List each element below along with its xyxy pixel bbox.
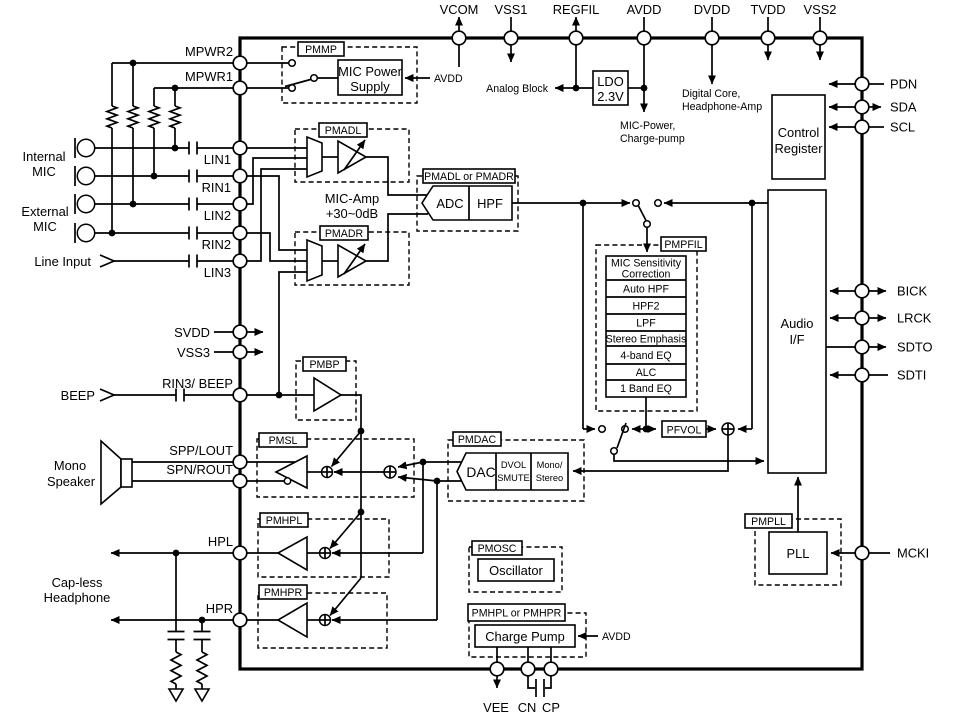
svg-text:REGFIL: REGFIL bbox=[553, 2, 600, 17]
pin DVDD circle bbox=[705, 31, 719, 45]
wire REGFIL up arrow bbox=[575, 17, 577, 31]
svg-text:AVDD: AVDD bbox=[627, 2, 662, 17]
dsp PMPFIL dashed box bbox=[596, 245, 697, 411]
wire MPWR2 external line bbox=[112, 62, 233, 64]
node playback line junction bbox=[749, 200, 756, 207]
switch contact (SDTI side) DSP input bbox=[655, 200, 662, 207]
svg-text:Mono/: Mono/ bbox=[537, 460, 563, 470]
pin RIN3/ BEEP circle bbox=[233, 388, 247, 402]
wire DAC-R diag arrow into speaker mixer2 bbox=[398, 477, 437, 481]
wire PFVOL to playback mixer bbox=[706, 428, 716, 430]
svg-text:+30~0dB: +30~0dB bbox=[326, 206, 378, 221]
wire SDTI inward arrow bbox=[830, 374, 855, 376]
svg-text:PMADR: PMADR bbox=[325, 228, 364, 240]
wire ADC direct line down bbox=[582, 203, 584, 429]
wire VCOM internal stub bbox=[458, 45, 460, 67]
svg-text:PMADL or PMADR: PMADL or PMADR bbox=[424, 171, 514, 183]
wire DVDD up stub bbox=[711, 17, 713, 31]
regulator LDO 2.3V box bbox=[593, 71, 628, 105]
pin MPWR2 circle bbox=[233, 56, 247, 70]
wire BICK outward arrow bbox=[869, 290, 886, 292]
svg-text:SDTI: SDTI bbox=[897, 368, 926, 383]
resistor R2 (bias MPWR2 to LIN2) bbox=[132, 63, 134, 106]
wire VSS2 down arrow bbox=[819, 45, 821, 60]
wire SPN/ROUT to speaker amp bubble bbox=[247, 480, 284, 482]
switch pole DSP input bbox=[644, 221, 651, 228]
wire TVDD down arrow bbox=[767, 45, 769, 60]
svg-text:PMOSC: PMOSC bbox=[478, 543, 517, 555]
svg-text:Control: Control bbox=[778, 125, 820, 140]
label box PMADL bbox=[319, 123, 367, 137]
wire HPR external arrow bbox=[111, 619, 233, 621]
adc PMADL-or-PMADR dashed box bbox=[417, 176, 518, 231]
block PFVOL bbox=[662, 421, 706, 437]
wire AVDD down to LDO node bbox=[643, 45, 645, 88]
wire LDO output to AVDD node bbox=[628, 87, 644, 89]
wire HPL mixer to amp bbox=[307, 552, 320, 554]
svg-text:HPF: HPF bbox=[477, 196, 503, 211]
pin TVDD circle bbox=[761, 31, 775, 45]
wire MPWR1 external line bbox=[154, 87, 233, 89]
svg-text:Internal: Internal bbox=[23, 149, 66, 164]
divider DAC/DVOL bbox=[495, 453, 497, 490]
chargepump PMHPL-or-PMHPR dashed box bbox=[469, 613, 586, 657]
filter stack divider 3 bbox=[606, 313, 686, 315]
svg-text:External: External bbox=[21, 204, 68, 219]
svg-text:LPF: LPF bbox=[636, 318, 656, 330]
label box PMHPL or PMHPR bbox=[468, 604, 565, 621]
wire DAC-R arrow into HPR mixer bbox=[332, 619, 437, 621]
input mux trapezoid (left channel) bbox=[307, 137, 322, 177]
wire cap to pin LIN1 bbox=[197, 147, 233, 149]
svg-text:Supply: Supply bbox=[350, 79, 390, 94]
divider DVOL/MonoStereo bbox=[530, 453, 532, 490]
svg-text:DVOL: DVOL bbox=[501, 460, 526, 470]
wire cap to pin RIN2 bbox=[197, 232, 233, 234]
pin CP circle bbox=[544, 662, 558, 676]
pin HPR circle bbox=[233, 613, 247, 627]
svg-text:RIN1: RIN1 bbox=[202, 180, 231, 195]
svg-text:PMHPL or PMHPR: PMHPL or PMHPR bbox=[472, 608, 562, 620]
osc PMOSC dashed box bbox=[469, 547, 562, 592]
wire VCOM up arrow bbox=[458, 17, 460, 31]
filter stack divider 5 bbox=[606, 345, 686, 347]
pin MCKI circle bbox=[855, 546, 869, 560]
gain arrow through amp-L bbox=[344, 140, 365, 170]
svg-text:Oscillator: Oscillator bbox=[489, 563, 543, 578]
filter stack divider 6 bbox=[606, 363, 686, 365]
pin LIN1 circle bbox=[233, 141, 247, 155]
wire TVDD up stub bbox=[767, 17, 769, 31]
wire mic to coupling cap RIN2 bbox=[95, 232, 189, 234]
wire SCL inward arrow bbox=[829, 126, 855, 128]
wire RIN1 to mux-R input1 bbox=[247, 176, 307, 250]
svg-text:PMHPL: PMHPL bbox=[266, 515, 303, 527]
label box PMSL bbox=[259, 433, 307, 447]
wire LIN3 to mux-L input3 bbox=[247, 169, 307, 261]
node bias junction on LIN1 bbox=[172, 145, 179, 152]
wire HPR mixer to amp bbox=[307, 619, 320, 621]
wire MCKI into PLL arrow bbox=[831, 552, 855, 554]
svg-text:ADC: ADC bbox=[436, 196, 463, 211]
svg-text:MIC-Amp: MIC-Amp bbox=[325, 191, 379, 206]
wire BICK inward arrow bbox=[830, 290, 855, 292]
pin RIN1 circle bbox=[233, 169, 247, 183]
divider ADC/HPF bbox=[468, 186, 470, 220]
pin BICK circle bbox=[855, 284, 869, 298]
pin VSS2 circle bbox=[813, 31, 827, 45]
svg-text:VSS3: VSS3 bbox=[177, 345, 210, 360]
svg-text:2.3V: 2.3V bbox=[597, 89, 624, 104]
pin LIN2 circle bbox=[233, 197, 247, 211]
pin AVDD circle bbox=[637, 31, 651, 45]
node MPWR1-R4 junction bbox=[172, 85, 179, 92]
svg-text:PMPFIL: PMPFIL bbox=[664, 239, 702, 251]
microphone symbol for RIN1 bbox=[74, 166, 76, 186]
svg-text:LDO: LDO bbox=[597, 74, 624, 89]
wire LIN1 to mux-L input1 bbox=[247, 147, 307, 149]
switch pole record select bbox=[611, 448, 618, 455]
wire beep to cap bbox=[114, 394, 176, 396]
speaker PMSL dashed box bbox=[257, 439, 414, 497]
filter stack divider 4 bbox=[606, 330, 686, 332]
node DAC-L junction bbox=[420, 459, 427, 466]
mixer HPR summing circle bbox=[320, 615, 331, 626]
label box PMADL or PMADR bbox=[423, 169, 515, 183]
node beep to speaker mixer junction bbox=[358, 428, 365, 435]
microphone symbol for LIN1 bbox=[74, 138, 76, 158]
node bias junction on LIN2 bbox=[130, 201, 137, 208]
svg-text:LIN3: LIN3 bbox=[204, 265, 231, 280]
resistor R4 (bias MPWR1 to LIN1) bbox=[174, 88, 176, 106]
ground arrow at x=202 bbox=[195, 689, 209, 701]
pll PMPLL dashed box bbox=[755, 519, 841, 585]
wire PDN inward arrow bbox=[829, 83, 855, 85]
pin SVDD circle bbox=[233, 325, 247, 339]
pin HPL circle bbox=[233, 546, 247, 560]
wire cap to pin LIN3 bbox=[197, 260, 233, 262]
wire line input to cap bbox=[114, 260, 189, 262]
wire RIN2 to mux-R input2 bbox=[247, 233, 307, 261]
wire MPWR2 internal to switch contact bbox=[247, 62, 289, 64]
svg-text:Headphone: Headphone bbox=[44, 590, 111, 605]
wire SDTI playback line to switch bbox=[664, 202, 768, 204]
wire VSS2 up stub bbox=[819, 17, 821, 31]
wire mux-R to amp-R bbox=[322, 260, 338, 262]
filter block stack outline bbox=[606, 256, 686, 397]
wire AVDD into Charge Pump bbox=[578, 635, 598, 637]
svg-text:VCOM: VCOM bbox=[440, 2, 479, 17]
wire VSS1 up stub bbox=[510, 17, 512, 31]
filter stack divider 2 bbox=[606, 296, 686, 298]
wire DAC-R down to HPR mixer bbox=[436, 481, 438, 620]
capacitor C-BEEP bbox=[175, 389, 177, 402]
wire DAC-L diag arrow into speaker mixer2 bbox=[398, 462, 423, 467]
svg-text:AVDD: AVDD bbox=[434, 73, 463, 85]
label box PMOSC bbox=[472, 541, 522, 555]
node bias junction on RIN2 bbox=[109, 230, 116, 237]
wire filter stack output bbox=[645, 397, 647, 429]
wire amp-L output to ADC bbox=[366, 157, 428, 195]
label box PMADR bbox=[320, 226, 368, 240]
wire Analog Block arrow from REGFIL node bbox=[555, 87, 593, 89]
pin PDN circle bbox=[855, 77, 869, 91]
switch contact record (filter side) bbox=[622, 426, 629, 433]
svg-text:Charge-pump: Charge-pump bbox=[620, 133, 685, 145]
capacitor C-LIN1 bbox=[188, 142, 190, 155]
mixer speaker mixer1 circle bbox=[322, 467, 333, 478]
block PLL bbox=[769, 532, 827, 574]
resistor in HP filter at x=176 bbox=[175, 640, 177, 653]
svg-text:ALC: ALC bbox=[636, 367, 657, 379]
switch lever record select bbox=[617, 423, 626, 448]
pin VSS1 circle bbox=[504, 31, 518, 45]
label box PMPFIL bbox=[661, 237, 706, 251]
wire AVDD up stub bbox=[643, 17, 645, 31]
svg-text:MIC: MIC bbox=[32, 164, 56, 179]
wire CN down to cap bbox=[528, 676, 535, 688]
amplifier HPR triangle bbox=[278, 603, 307, 637]
wire VSS1 down arrow bbox=[510, 45, 512, 62]
mixer HPL summing circle bbox=[320, 548, 331, 559]
svg-text:SPP/LOUT: SPP/LOUT bbox=[169, 443, 233, 458]
svg-text:Line Input: Line Input bbox=[34, 254, 91, 269]
node filter output junction bbox=[643, 426, 650, 433]
wire DVDD down arrow bbox=[711, 45, 713, 84]
capacitor C-RIN1 bbox=[188, 170, 190, 183]
resistor R3 (bias MPWR1 to RIN1) bbox=[153, 88, 155, 106]
mixer speaker mixer2 circle bbox=[384, 466, 396, 478]
wire HPL external arrow bbox=[111, 552, 233, 554]
switch lever DSP input bbox=[639, 206, 647, 221]
svg-text:CP: CP bbox=[542, 700, 560, 715]
pin SPN/ROUT circle bbox=[233, 474, 247, 488]
wire VEE down arrow bbox=[496, 676, 498, 688]
svg-text:MPWR1: MPWR1 bbox=[185, 69, 233, 84]
svg-text:MIC-Power,: MIC-Power, bbox=[620, 120, 675, 132]
switch contact (ADC side) DSP input bbox=[633, 200, 640, 207]
svg-text:SPN/ROUT: SPN/ROUT bbox=[166, 462, 233, 477]
svg-text:PMPLL: PMPLL bbox=[751, 516, 786, 528]
block Audio I/F bbox=[768, 190, 826, 473]
svg-text:PMADL: PMADL bbox=[325, 125, 362, 137]
block MIC Power Supply bbox=[338, 60, 402, 95]
mic-amp PMADL dashed box bbox=[295, 129, 409, 182]
capacitor in HP filter at x=202 bbox=[201, 620, 203, 632]
wire ADC output to record switch bbox=[512, 202, 630, 204]
node ADC output junction bbox=[580, 200, 587, 207]
label box PMMP bbox=[298, 42, 344, 56]
wire MCKI to label bbox=[869, 552, 890, 554]
capacitor C-LIN3 bbox=[188, 255, 190, 268]
microphone symbol for RIN2 bbox=[74, 223, 76, 243]
wire mic to coupling cap LIN1 bbox=[95, 147, 189, 149]
switch contact MPWR1 bbox=[289, 85, 296, 92]
pin RIN2 circle bbox=[233, 226, 247, 240]
wire PDN to label bbox=[869, 83, 884, 85]
block Oscillator bbox=[478, 559, 554, 581]
svg-text:PMMP: PMMP bbox=[305, 44, 337, 56]
block ADC-HPF pentagon bbox=[422, 186, 512, 220]
svg-text:Charge Pump: Charge Pump bbox=[485, 629, 565, 644]
svg-text:BEEP: BEEP bbox=[61, 388, 95, 403]
pin REGFIL circle bbox=[569, 31, 583, 45]
wire speaker to SPP/LOUT bbox=[132, 461, 233, 463]
wire mux-L to amp-L bbox=[322, 156, 338, 158]
amplifier mic-amp L triangle bbox=[338, 141, 366, 173]
svg-text:Headphone-Amp: Headphone-Amp bbox=[682, 101, 762, 113]
svg-text:Digital Core,: Digital Core, bbox=[682, 88, 740, 100]
wire LIN2 to mux-L input2 bbox=[247, 158, 307, 204]
wire speaker to SPN/ROUT bbox=[132, 480, 233, 482]
input mux trapezoid (right channel) bbox=[307, 240, 322, 281]
wire SDTI to label bbox=[869, 374, 888, 376]
line input chevron symbol bbox=[100, 255, 114, 267]
svg-text:VEE: VEE bbox=[483, 700, 509, 715]
node REGFIL-LDO junction bbox=[573, 85, 580, 92]
svg-text:LIN1: LIN1 bbox=[204, 152, 231, 167]
switch contact MPWR2 bbox=[289, 60, 296, 67]
wire SDA inward arrow bbox=[829, 106, 855, 108]
svg-text:HPF2: HPF2 bbox=[632, 301, 659, 313]
block Charge Pump bbox=[475, 625, 575, 647]
svg-text:I/F: I/F bbox=[789, 332, 804, 347]
wire HPL pin to HPL amp bbox=[247, 552, 278, 554]
label box PMDAC bbox=[453, 432, 501, 446]
node HPR filter junction bbox=[199, 617, 206, 624]
pin SDA circle bbox=[855, 100, 869, 114]
wire SDA outward arrow bbox=[869, 106, 881, 108]
node DAC-R junction bbox=[434, 478, 441, 485]
wire beep to mux-R input3 bbox=[279, 272, 307, 395]
svg-text:Mono: Mono bbox=[54, 458, 86, 473]
wire SCL to label bbox=[869, 126, 884, 128]
pin CN circle bbox=[521, 662, 535, 676]
svg-text:Register: Register bbox=[775, 141, 824, 156]
wire beep diag arrow into HPR mixer bbox=[330, 578, 361, 616]
wire amp-R output to ADC bbox=[366, 214, 428, 261]
wire SDTI line down to mixer bbox=[751, 203, 753, 429]
pin LIN3 circle bbox=[233, 254, 247, 268]
switch lever bbox=[285, 80, 311, 87]
svg-text:HPL: HPL bbox=[208, 534, 233, 549]
wire record path to Audio I/F bbox=[614, 454, 764, 461]
capacitor in HP filter at x=176 bbox=[175, 553, 177, 632]
dac PMDAC dashed box bbox=[448, 440, 584, 501]
svg-text:RIN2: RIN2 bbox=[202, 237, 231, 252]
pin VSS3 circle bbox=[233, 345, 247, 359]
svg-text:PDN: PDN bbox=[890, 77, 917, 92]
svg-text:PMSL: PMSL bbox=[269, 435, 298, 447]
wire beep diag arrow into HPL mixer bbox=[330, 512, 361, 549]
svg-text:SVDD: SVDD bbox=[174, 325, 210, 340]
svg-text:PFVOL: PFVOL bbox=[667, 425, 702, 437]
wire SDTI arrow into mixer bbox=[738, 428, 752, 430]
wire mic to coupling cap LIN2 bbox=[95, 203, 189, 205]
wire beep diag arrow into speaker mixer1 bbox=[332, 431, 362, 467]
wire speaker mixer1 to amp bbox=[307, 471, 322, 473]
svg-text:MCKI: MCKI bbox=[897, 546, 929, 561]
wire SPP/LOUT to speaker amp bbox=[247, 461, 295, 463]
svg-text:Speaker: Speaker bbox=[47, 474, 96, 489]
pin SPP/LOUT circle bbox=[233, 455, 247, 469]
wire DSP input arrow bbox=[646, 227, 648, 252]
wire charge pump to CN pin bbox=[527, 647, 529, 662]
wire RIN3/BEEP to beep amp bbox=[247, 394, 314, 396]
microphone symbol for LIN2 bbox=[74, 194, 76, 214]
svg-text:PMBP: PMBP bbox=[309, 359, 339, 371]
pin SCL circle bbox=[855, 120, 869, 134]
switch pole bbox=[311, 75, 318, 82]
hp PMHPR dashed box bbox=[258, 593, 387, 648]
speaker symbol (mono speaker) bbox=[101, 441, 121, 504]
block Control Register bbox=[772, 95, 825, 179]
svg-text:AVDD: AVDD bbox=[602, 631, 631, 643]
svg-text:1 Band EQ: 1 Band EQ bbox=[620, 383, 672, 395]
node beep line junction bbox=[276, 392, 283, 399]
svg-text:Cap-less: Cap-less bbox=[52, 575, 103, 590]
node MPWR2-R2 junction bbox=[130, 60, 137, 67]
svg-text:PLL: PLL bbox=[787, 546, 810, 561]
svg-text:DVDD: DVDD bbox=[694, 2, 731, 17]
svg-text:SCL: SCL bbox=[890, 120, 915, 135]
svg-text:VSS1: VSS1 bbox=[495, 2, 528, 17]
svg-text:SDTO: SDTO bbox=[897, 340, 933, 355]
label box PMPLL bbox=[745, 514, 792, 528]
amplifier beep triangle bbox=[314, 378, 341, 411]
label box PMHPL bbox=[260, 513, 308, 527]
wire HPR pin to HPR amp bbox=[247, 619, 278, 621]
switch contact record (ADC direct) bbox=[599, 426, 606, 433]
wire CP down to cap bbox=[545, 676, 551, 688]
wire cap to pin RIN1 bbox=[197, 175, 233, 177]
wire charge pump to CP pin bbox=[550, 647, 552, 662]
node AVDD-LDO junction bbox=[641, 85, 648, 92]
capacitor CN-CP flying cap bbox=[535, 679, 537, 697]
wire mixer2 arrow into mixer1 bbox=[334, 471, 384, 473]
svg-text:4-band EQ: 4-band EQ bbox=[620, 350, 671, 362]
capacitor C-RIN2 bbox=[188, 227, 190, 240]
wire cap to pin RIN3/BEEP bbox=[184, 394, 233, 396]
wire ADC direct arrow to record switch bbox=[583, 428, 595, 430]
wire filter output arrow to record switch bbox=[632, 428, 646, 430]
wire SDTO from Audio I/F bbox=[826, 346, 855, 348]
wire SVDD internal arrow bbox=[247, 331, 263, 333]
svg-text:HPR: HPR bbox=[206, 601, 233, 616]
wire SDTO outward arrow bbox=[869, 346, 886, 348]
node beep to HPL mixer junction bbox=[358, 509, 365, 516]
svg-text:MPWR2: MPWR2 bbox=[185, 44, 233, 59]
svg-text:Audio: Audio bbox=[781, 316, 814, 331]
resistor in HP filter at x=202 bbox=[201, 640, 203, 653]
amplifier speaker triangle bbox=[276, 456, 307, 488]
power-switch PMMP dashed box bbox=[282, 47, 417, 103]
beep PMBP dashed box bbox=[296, 361, 356, 420]
svg-text:RIN3/ BEEP: RIN3/ BEEP bbox=[162, 376, 233, 391]
svg-text:BICK: BICK bbox=[897, 284, 927, 299]
wire REGFIL down to LDO node bbox=[575, 45, 577, 88]
svg-text:Stereo Emphasis: Stereo Emphasis bbox=[606, 334, 687, 346]
wire mic to coupling cap RIN1 bbox=[95, 175, 189, 177]
svg-text:PMHPR: PMHPR bbox=[264, 587, 303, 599]
svg-text:CN: CN bbox=[518, 700, 537, 715]
svg-text:MIC Power: MIC Power bbox=[338, 64, 402, 79]
svg-text:Auto HPF: Auto HPF bbox=[623, 284, 669, 296]
block DAC pentagon bbox=[457, 453, 568, 490]
wire AVDD into MIC Power Supply bbox=[405, 77, 430, 79]
inverting bubble on speaker amp bbox=[284, 478, 290, 484]
filter stack divider 1 bbox=[606, 279, 686, 281]
